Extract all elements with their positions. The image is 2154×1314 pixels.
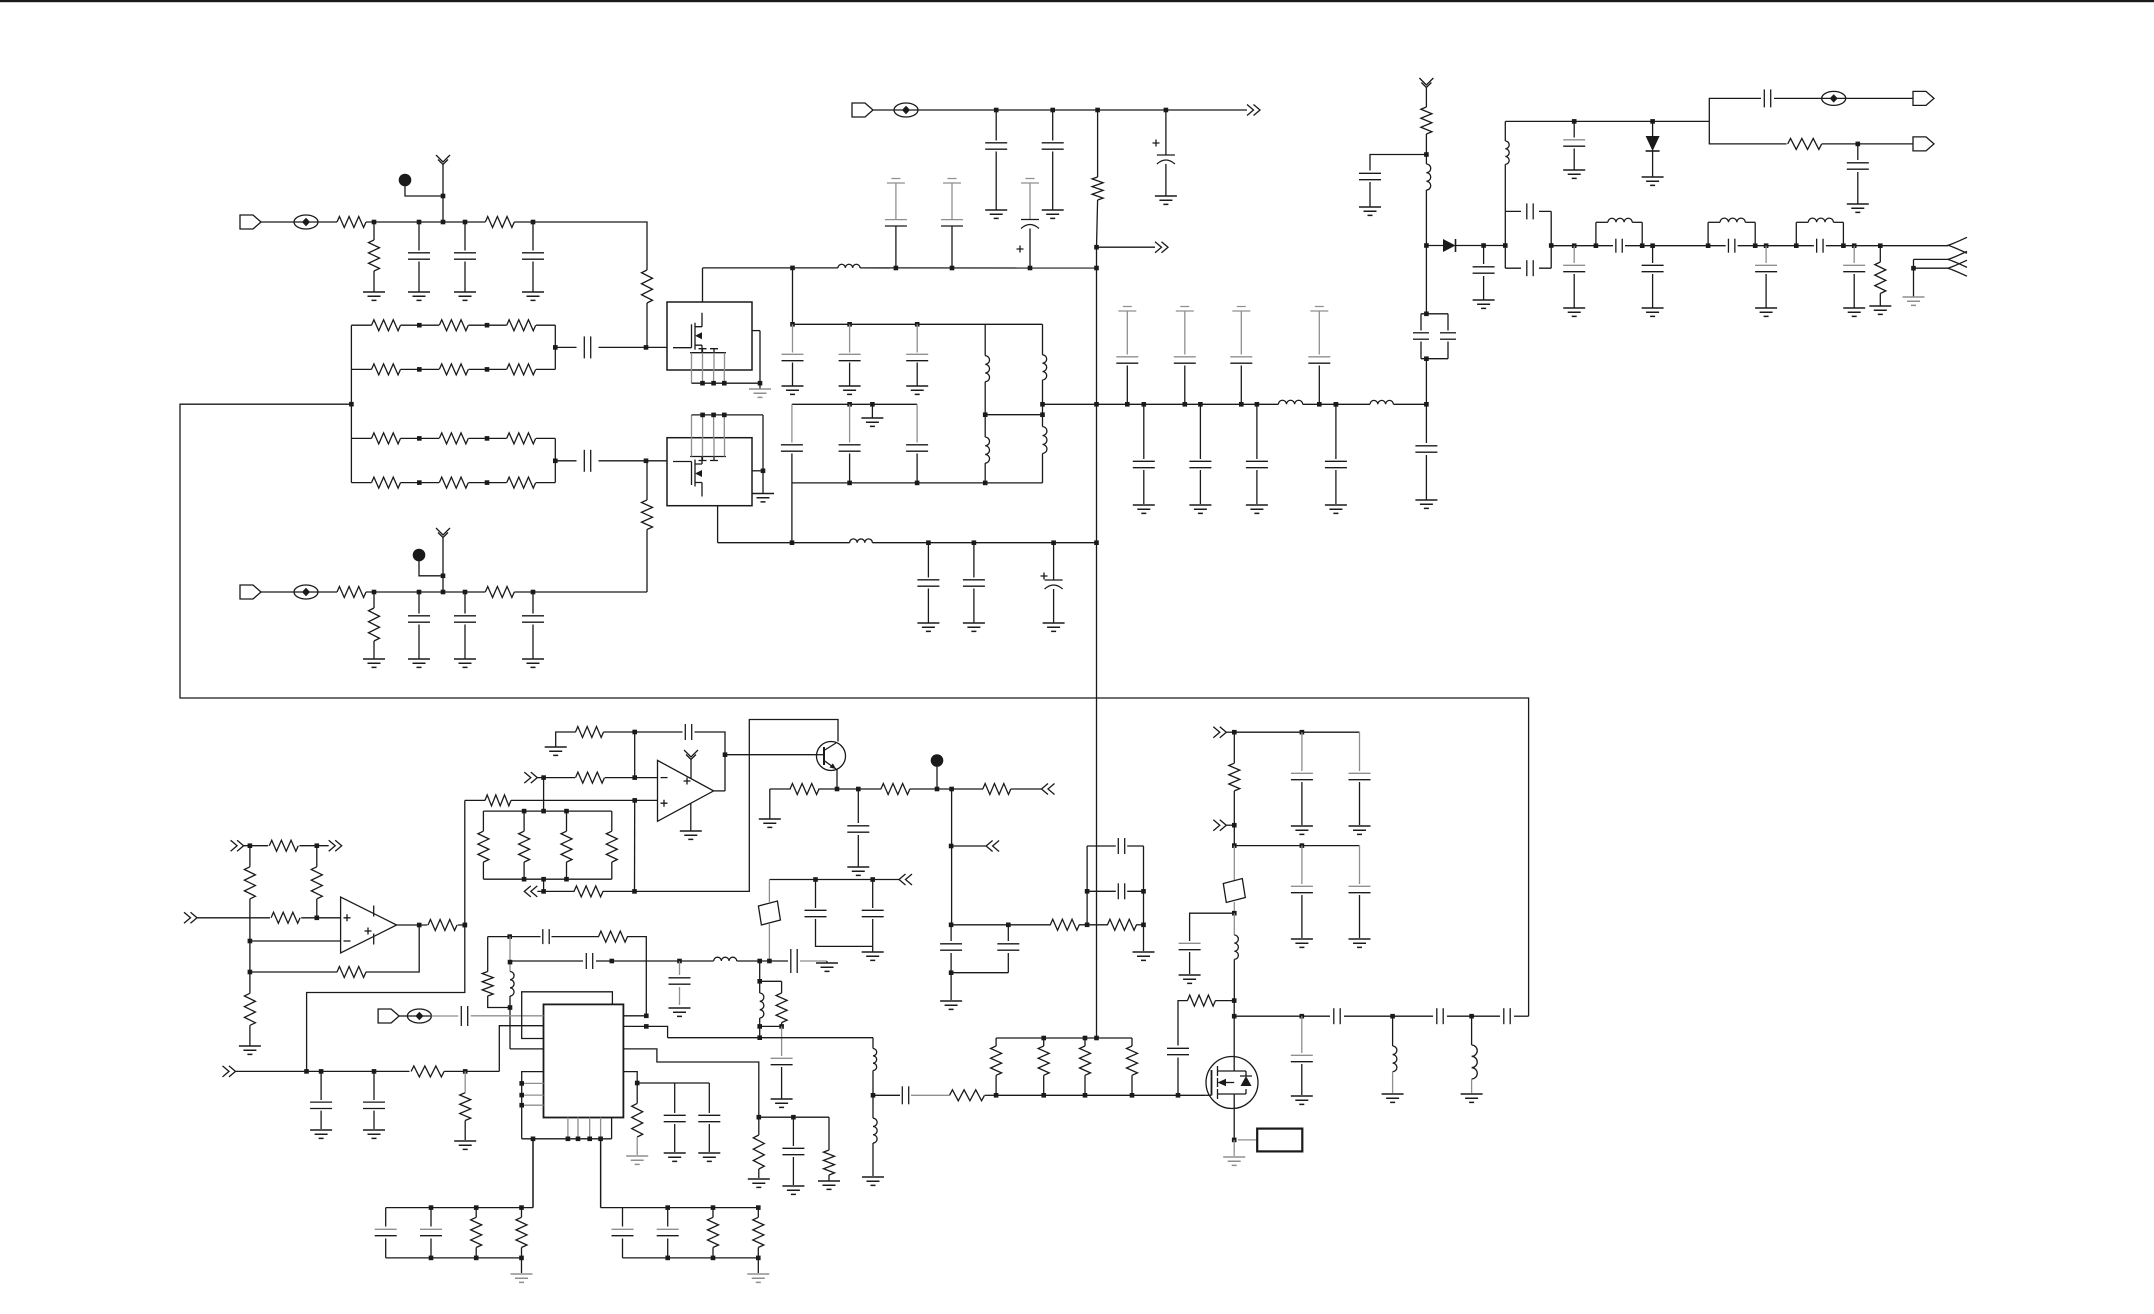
ground [847, 867, 869, 875]
wire [554, 325, 556, 369]
capacitor C46 [542, 929, 544, 944]
wire [985, 414, 1042, 416]
resistor R23 [574, 886, 603, 897]
wire [872, 1071, 874, 1096]
wire [1707, 222, 1709, 245]
resistor [507, 364, 536, 375]
capacitor C33 [1440, 332, 1456, 334]
wire [1425, 455, 1427, 500]
wire [816, 754, 824, 756]
junction [1125, 402, 1130, 407]
junction [564, 809, 569, 814]
junction [870, 877, 875, 882]
capacitor C41 [1843, 264, 1865, 266]
junction [1424, 152, 1429, 157]
junction [417, 923, 422, 928]
wire [1625, 245, 1642, 247]
wire [469, 368, 507, 370]
junction [1503, 243, 1508, 248]
junction [644, 459, 649, 464]
ground [862, 952, 884, 960]
wire [1447, 1015, 1500, 1017]
wire [509, 996, 511, 1049]
wire [521, 1258, 523, 1273]
wire [351, 324, 371, 326]
wire [1043, 403, 1279, 405]
junction [319, 1069, 324, 1074]
capacitor C60 [1291, 885, 1313, 887]
wire [1471, 1079, 1473, 1093]
wire [249, 846, 251, 867]
wire [1573, 274, 1575, 308]
wire [1392, 1016, 1394, 1046]
wire [1853, 246, 1855, 263]
wire [1184, 311, 1186, 355]
wire [1796, 221, 1808, 223]
junction [1040, 412, 1045, 417]
junction [870, 402, 875, 407]
wire [714, 790, 725, 792]
ground [408, 292, 430, 300]
ground [1133, 505, 1155, 513]
capacitor C53 [363, 1101, 385, 1103]
wire [1504, 164, 1506, 211]
capacitor C44 [805, 909, 827, 911]
junction [372, 220, 377, 225]
capacitor C43 [847, 825, 869, 827]
wire [984, 415, 986, 437]
wire [703, 267, 839, 269]
junction [926, 540, 931, 545]
wire [1131, 1075, 1133, 1095]
input port J6 [378, 1009, 399, 1023]
wire [458, 924, 465, 926]
wire [1042, 453, 1044, 483]
junction [519, 1081, 524, 1086]
capacitor C20 [906, 444, 928, 446]
junction [417, 480, 422, 485]
wire [759, 1018, 761, 1026]
resistor [991, 1046, 1002, 1075]
Q2 gate bar [1211, 1070, 1213, 1095]
junction [1085, 923, 1090, 928]
wire [1084, 1075, 1086, 1095]
wire [1087, 845, 1116, 847]
junction [1841, 243, 1846, 248]
Q1 base bar [823, 747, 825, 765]
wire [1596, 245, 1613, 247]
wire [1087, 890, 1116, 892]
junction [1232, 1014, 1237, 1019]
wire [1011, 788, 1042, 790]
junction [1794, 243, 1799, 248]
junction [847, 481, 852, 486]
wire [1471, 1016, 1473, 1045]
wire [1344, 1015, 1433, 1017]
wire [695, 732, 726, 791]
junction [1390, 1014, 1395, 1019]
wire [556, 732, 576, 747]
wire [918, 109, 1247, 111]
wire [464, 592, 466, 614]
wire [600, 1139, 602, 1208]
ground [1473, 300, 1495, 308]
wire [857, 835, 859, 867]
net tie TP3 [294, 585, 318, 599]
junction [372, 590, 377, 595]
junction [1424, 243, 1429, 248]
inductor L4 [1043, 355, 1047, 380]
junction [553, 459, 558, 464]
junction [1094, 540, 1099, 545]
junction [315, 843, 320, 848]
capacitor C9 [985, 142, 1007, 144]
wire [762, 471, 764, 494]
wire [514, 222, 647, 270]
capacitor C35 [1563, 139, 1585, 141]
junction [576, 1137, 581, 1142]
junction [835, 787, 840, 792]
Q2 drain stub [1218, 1057, 1235, 1072]
wire [646, 460, 667, 462]
wire [1184, 366, 1186, 405]
wire [197, 917, 270, 919]
junction [632, 775, 637, 780]
capacitor C67 [1291, 1054, 1313, 1056]
wire [872, 1143, 874, 1176]
wire [1234, 845, 1359, 847]
junction [522, 809, 527, 814]
wire [910, 788, 983, 790]
net connector VCC [684, 750, 698, 763]
junction [1232, 911, 1237, 916]
wire [858, 788, 881, 790]
wire [1199, 404, 1201, 459]
wire [757, 1248, 759, 1258]
resistor [372, 320, 401, 331]
Q2 gate arrow [1218, 1079, 1227, 1087]
wire [351, 368, 371, 370]
wire [667, 1239, 669, 1258]
inductor L13 [760, 993, 764, 1018]
wire [1029, 183, 1031, 220]
wire [791, 404, 793, 442]
MOSFET Q2 [1206, 1057, 1258, 1109]
wire [1029, 229, 1031, 269]
junction [1572, 119, 1577, 124]
wire [366, 925, 419, 972]
wire [692, 414, 764, 416]
net connector VS1 [1155, 242, 1168, 253]
wire [927, 543, 929, 578]
wire [1426, 245, 1443, 247]
wire [916, 454, 918, 483]
wire [636, 1137, 638, 1155]
wire [857, 789, 859, 823]
net connector N5 [524, 886, 537, 897]
junction [474, 1256, 479, 1261]
wire [487, 937, 489, 972]
resistor R26 [599, 931, 628, 942]
ground [310, 1130, 332, 1138]
wire [1215, 1000, 1234, 1002]
junction [519, 1205, 524, 1210]
capacitor C22 [1174, 356, 1196, 358]
resistor R36 [1187, 995, 1215, 1006]
wire [873, 1094, 900, 1096]
wire [1822, 143, 1913, 145]
wire [1303, 403, 1370, 405]
wire [951, 183, 953, 220]
junction [598, 1137, 603, 1142]
test point TP2 [399, 174, 412, 187]
off-page connector ANT1 [1948, 237, 1967, 253]
wire [871, 404, 873, 418]
wire [1708, 245, 1726, 247]
junction [790, 322, 795, 327]
wire [397, 924, 428, 926]
capacitor C37 [1847, 162, 1869, 164]
capacitor C64 [1333, 1008, 1335, 1024]
wire [1189, 952, 1191, 974]
wire [1857, 144, 1859, 160]
wire [1853, 274, 1855, 308]
capacitor C51 [460, 1006, 462, 1026]
junction [665, 1205, 670, 1210]
junction [972, 540, 977, 545]
resistor R18 [428, 920, 457, 931]
wire [792, 403, 917, 405]
wire [244, 845, 269, 847]
junction [915, 322, 920, 327]
inductor L8 [850, 539, 873, 543]
wire [818, 788, 837, 790]
wire [1335, 404, 1337, 459]
capacitor C25 [917, 579, 939, 581]
resistor R1 [337, 217, 366, 228]
wire [612, 960, 680, 962]
capacitor C7 [454, 615, 476, 617]
wire [1233, 1001, 1235, 1017]
junction [1142, 402, 1147, 407]
wire [1127, 845, 1143, 847]
wire [723, 415, 725, 438]
resistor R19 [337, 967, 366, 978]
resistor R6 [337, 587, 366, 598]
wire [634, 800, 636, 891]
junction [722, 381, 727, 386]
wire [792, 482, 1043, 484]
diode D2 [1646, 136, 1660, 151]
resistor [1080, 1046, 1091, 1075]
junction [847, 322, 852, 327]
junction [417, 367, 422, 372]
capacitor C50 [771, 1057, 793, 1059]
ground [698, 1153, 720, 1161]
wire [1233, 791, 1235, 846]
wire [712, 1208, 714, 1218]
wire [791, 483, 793, 543]
junction [429, 1205, 434, 1210]
ground [454, 1141, 476, 1149]
wire [1765, 274, 1767, 308]
junction [1141, 923, 1146, 928]
capacitor C13 [941, 219, 963, 221]
plus mark [1017, 246, 1024, 253]
wire [1857, 172, 1859, 204]
junction [1640, 243, 1645, 248]
junction [983, 481, 988, 486]
power stub [1176, 307, 1194, 312]
wire [1301, 782, 1303, 825]
inductor L6 [1278, 400, 1302, 404]
power bar [373, 906, 375, 917]
wire [950, 953, 952, 973]
resistor [1038, 1046, 1049, 1075]
wire [623, 1026, 667, 1037]
capacitor C6 [408, 615, 430, 617]
polarized capacitor C14 [1021, 219, 1039, 221]
ground [680, 831, 702, 839]
ground [1246, 505, 1268, 513]
junction [1650, 119, 1655, 124]
capacitor C74 [1246, 460, 1268, 462]
wire [1301, 895, 1303, 938]
junction [441, 194, 446, 199]
ground [1223, 1157, 1245, 1165]
wire [1190, 913, 1235, 941]
wire [692, 382, 761, 384]
wire [488, 996, 510, 1008]
wire [386, 1257, 522, 1259]
wire [1199, 470, 1201, 504]
wire [1234, 1015, 1330, 1017]
wire [521, 1208, 523, 1218]
ground [1189, 505, 1211, 513]
capacitor C26 [963, 579, 985, 581]
wire [1652, 246, 1654, 263]
wire [1754, 222, 1756, 245]
ground [940, 1001, 962, 1009]
capacitor C34 [1415, 445, 1437, 447]
wire [1126, 366, 1128, 405]
wire [418, 222, 420, 251]
ground [839, 386, 861, 394]
wire [1514, 1015, 1529, 1017]
wire [1359, 732, 1361, 771]
wire [511, 799, 658, 801]
junction [610, 959, 615, 964]
junction [756, 1205, 761, 1210]
wire [646, 303, 648, 347]
resistor R39 [983, 784, 1011, 795]
net connector N3 [184, 912, 197, 923]
wire [872, 1095, 874, 1118]
capacitor C58 [1291, 772, 1313, 774]
capacitor C45 [862, 909, 884, 911]
resistor R21 [576, 727, 604, 738]
wire [1043, 1038, 1045, 1046]
wire [1233, 902, 1235, 913]
ground [1179, 975, 1201, 983]
wire [690, 803, 692, 831]
wire [604, 731, 635, 733]
capacitor C72 [1133, 460, 1155, 462]
wire [464, 1121, 466, 1141]
component box X1 [1257, 1129, 1302, 1152]
junction [531, 1137, 536, 1142]
wire [442, 168, 444, 222]
wire [1143, 470, 1145, 504]
resistor [606, 831, 617, 862]
ground [917, 623, 939, 631]
capacitor C16 [839, 353, 861, 355]
resistor [439, 364, 468, 375]
wire [552, 936, 599, 938]
wire [430, 1239, 432, 1258]
junction [474, 1205, 479, 1210]
wire [537, 777, 575, 779]
ground [1359, 207, 1381, 215]
off-page connector ANT3 [1948, 260, 1967, 276]
wire [536, 482, 555, 484]
net connector N7 [899, 874, 912, 885]
capacitor C21 [1116, 356, 1138, 358]
net connector N8 [223, 1066, 236, 1077]
wire feedback loop [180, 404, 1529, 1016]
resistor [507, 433, 536, 444]
wire [1240, 366, 1242, 405]
wire [418, 262, 420, 293]
wire [599, 346, 647, 348]
wire [386, 1207, 533, 1209]
ground [1349, 826, 1371, 834]
wire [723, 370, 725, 383]
wire [791, 454, 793, 483]
resistor [372, 433, 401, 444]
wire [757, 1258, 759, 1273]
resistor [507, 320, 536, 331]
wire [951, 972, 1008, 974]
plus label [661, 800, 668, 807]
resistor R15 [244, 993, 255, 1025]
wire [249, 1025, 251, 1046]
junction [1764, 243, 1769, 248]
wire [792, 1117, 794, 1146]
resistor R29 [411, 1066, 444, 1077]
wire [351, 437, 371, 439]
ground [1563, 308, 1585, 316]
inductor L16 [1234, 935, 1238, 959]
junction [463, 923, 468, 928]
wire [475, 1248, 477, 1258]
junction [949, 923, 954, 928]
capacitor C42 [684, 724, 686, 740]
wire [1652, 121, 1654, 136]
wire [911, 1094, 949, 1096]
wire [769, 789, 771, 819]
ground [759, 819, 781, 827]
wire [1913, 259, 1915, 296]
junction [1650, 243, 1655, 248]
net connector VOUT [1247, 105, 1260, 116]
wire [1709, 121, 1786, 143]
capacitor [657, 1228, 679, 1230]
wire [385, 1239, 387, 1258]
wire [995, 110, 997, 141]
junction [994, 108, 999, 113]
junction [813, 877, 818, 882]
